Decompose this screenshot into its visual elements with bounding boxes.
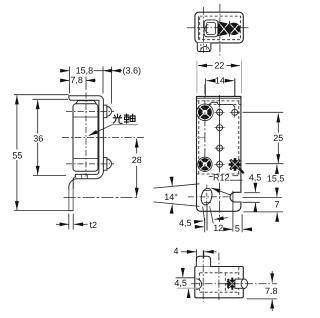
- top view body outline: [195, 12, 243, 43]
- dimension t2: [56, 214, 97, 230]
- bottom view centerline horizontal: [191, 283, 277, 285]
- svg-text:22: 22: [214, 61, 224, 71]
- top view centerline vertical 2: [219, 4, 221, 57]
- top screw centerline: [66, 110, 114, 112]
- angled slot (front view): [200, 185, 214, 207]
- top view hidden sensor outline (dashed): [200, 16, 241, 40]
- svg-text:4,5: 4,5: [174, 278, 187, 288]
- big screw head bottom-left (hatched): [198, 157, 212, 171]
- sensor boss outline (front): [208, 102, 236, 107]
- svg-text:t2: t2: [90, 220, 98, 230]
- bottom screw centerline: [66, 163, 114, 165]
- svg-text:4: 4: [174, 246, 179, 256]
- dimension 22: [197, 61, 242, 94]
- dimension 5: [226, 191, 250, 234]
- optical axis label (CJK glyphs drawn as strokes): [113, 114, 135, 124]
- top view lower strip tab: [197, 43, 211, 52]
- hole middle 1: [215, 123, 225, 133]
- svg-text:7.8: 7.8: [265, 286, 278, 296]
- svg-text:R12: R12: [213, 172, 230, 182]
- top view screw head (hatched section): [218, 21, 240, 37]
- dimension 7: [275, 200, 280, 219]
- bracket lower strip gray edges: [69, 189, 73, 210]
- optical axis stub (front view): [196, 136, 205, 138]
- top view bracket edge line: [198, 16, 200, 40]
- svg-text:55: 55: [12, 150, 22, 160]
- mounting bracket Z-strip (side view): [69, 96, 104, 211]
- svg-text:36: 36: [33, 134, 43, 144]
- svg-text:5: 5: [235, 223, 240, 233]
- dimension 4: [174, 246, 217, 262]
- dimension 15,8: [60, 66, 111, 94]
- hole top-right: [230, 107, 240, 117]
- lens window arc: [196, 279, 201, 290]
- dimension 25: [243, 112, 284, 163]
- sensor vertical centerline: [85, 93, 87, 177]
- svg-text:12: 12: [213, 223, 223, 233]
- top view centerline vertical 1: [203, 7, 205, 53]
- slot edge extension lines: [203, 206, 214, 223]
- middle column centerline: [219, 95, 221, 222]
- dimension 4,5 bottom view: [174, 271, 200, 297]
- left column centerline: [204, 84, 206, 171]
- right column extension line: [234, 78, 236, 96]
- bracket bend tangent ticks: [81, 175, 87, 179]
- hidden lines (dashed) of sensor behind plate: [197, 101, 241, 174]
- dimension 7,8: [247, 271, 278, 311]
- bottom view centerline vertical 2: [218, 253, 220, 300]
- dimension 36: [32, 99, 68, 175]
- optical axis centerline: [62, 137, 146, 139]
- bottom view centerline vertical 1: [202, 251, 204, 302]
- dimension 12: [205, 218, 228, 233]
- svg-text:15,8: 15,8: [76, 66, 94, 76]
- top view centerline horizontal: [187, 27, 249, 29]
- hole bottom-middle: [215, 159, 225, 169]
- front plate outline with side slot notch: [197, 96, 241, 211]
- bottom view hidden lines: [200, 267, 239, 298]
- sensor body (side view): [73, 101, 98, 172]
- dimension 15,5: [267, 165, 285, 197]
- thumbscrew barrel (bottom view): [235, 279, 248, 288]
- svg-text:28: 28: [132, 155, 142, 165]
- dimension 28: [64, 139, 142, 198]
- bottom mounting screw (side view): [103, 158, 111, 171]
- dimension 14 degrees: [154, 179, 230, 212]
- R12 label and leader: [209, 172, 232, 195]
- svg-text:14°: 14°: [164, 192, 178, 202]
- svg-text:14: 14: [215, 76, 225, 86]
- top mounting screw (side view): [103, 105, 111, 118]
- svg-text:15,5: 15,5: [267, 174, 285, 184]
- dimension 4,5 lower-left with leader: [179, 218, 204, 228]
- thumbscrew with serrated washer bottom-right (hatched star): [229, 158, 244, 173]
- dimension 14: [205, 76, 235, 96]
- bottom view strip end: [196, 256, 210, 266]
- svg-text:4,5: 4,5: [249, 173, 262, 183]
- svg-text:7,8: 7,8: [70, 75, 83, 85]
- svg-text:25: 25: [273, 133, 283, 143]
- svg-text:7: 7: [275, 200, 280, 210]
- bend tangent line: [197, 97, 241, 99]
- svg-text:4,5: 4,5: [179, 218, 192, 228]
- top view screw boss outline: [204, 20, 218, 37]
- hole middle 2: [215, 143, 225, 153]
- big screw head top-left (hatched): [197, 104, 214, 121]
- dimension 4,5 right: [249, 173, 262, 212]
- bottom view body outline: [195, 267, 244, 298]
- dimension 7,8: [60, 75, 95, 90]
- optical axis leader arrow: [112, 124, 138, 126]
- hole top-middle: [215, 107, 225, 117]
- short reference lines near R12: [230, 179, 243, 181]
- dimension 55: [12, 95, 68, 211]
- svg-text:(3.6): (3.6): [123, 66, 142, 76]
- dimension (3.6): [112, 66, 141, 104]
- serrated washer (bottom view): [226, 278, 238, 290]
- extension lines right side: [244, 192, 260, 194]
